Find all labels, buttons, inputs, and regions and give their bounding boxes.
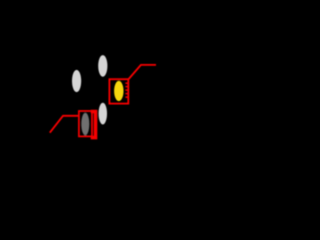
- wire W2 (to lower left): [50, 116, 79, 133]
- node C (light ellipse middle): [99, 103, 107, 125]
- bracket connector J1 (thick red ] ): [91, 112, 96, 138]
- lamp L1 (yellow ellipse inside U1): [114, 81, 123, 101]
- wire W1 (to upper right): [129, 65, 156, 79]
- node A (light ellipse top): [98, 55, 107, 77]
- node B (light ellipse left): [72, 70, 81, 92]
- component box U1 (red rectangle top-right): [109, 79, 128, 103]
- component box U2 (red rectangle bottom-left): [79, 111, 92, 136]
- pin ticks of U1: [125, 83, 127, 97]
- element E1 (dark ellipse inside U2): [81, 113, 89, 136]
